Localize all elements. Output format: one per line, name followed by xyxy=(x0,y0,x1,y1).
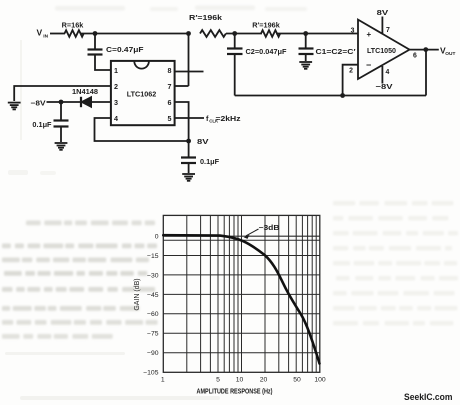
junction output node xyxy=(423,47,428,52)
node fCLK label xyxy=(206,114,241,124)
pin number 3 xyxy=(114,98,118,107)
svg-text:OUT: OUT xyxy=(445,51,455,57)
graph x-axis label 5 xyxy=(216,377,220,384)
svg-text:−105: −105 xyxy=(143,370,159,377)
node VOUT label xyxy=(440,46,455,58)
junction node E xyxy=(186,139,191,144)
junction -8V node xyxy=(59,100,64,105)
op-amp U1 LTC1050 xyxy=(358,20,410,79)
pin number 7 xyxy=(168,82,172,91)
graph y-axis label -105 xyxy=(143,370,159,377)
svg-text:−15: −15 xyxy=(147,253,159,260)
junction node D xyxy=(303,31,308,36)
capacitor C4 (0.1uF) xyxy=(54,102,69,142)
svg-text:50: 50 xyxy=(293,377,301,384)
graph y-axis label -90 xyxy=(147,350,159,357)
capacitor C value label C=0.47uF xyxy=(106,45,144,54)
resistor R'1 (196k) xyxy=(200,30,226,37)
capacitor C (0.47uF) xyxy=(88,34,103,55)
graph x-axis label 50 xyxy=(293,377,301,384)
graph x-axis label 100 xyxy=(314,377,326,384)
svg-text:−8V: −8V xyxy=(376,82,393,91)
svg-text:5: 5 xyxy=(168,114,172,123)
resistor R'1 value label R'=196k xyxy=(189,13,223,22)
svg-text:−3dB: −3dB xyxy=(259,225,280,232)
svg-text:V: V xyxy=(37,28,43,38)
svg-text:R′=196k: R′=196k xyxy=(189,13,223,22)
pin number 1 xyxy=(114,66,118,75)
svg-text:0.1μF: 0.1μF xyxy=(32,120,52,129)
capacitor C2 value label C2=0.047uF xyxy=(246,47,288,56)
svg-text:1: 1 xyxy=(161,377,165,384)
capacitor C5 (0.1uF) xyxy=(181,141,196,173)
graph y-axis label -15 xyxy=(147,253,159,260)
svg-text:LTC1062: LTC1062 xyxy=(127,90,156,99)
wire inverting input xyxy=(343,65,358,96)
ground at pin 2 xyxy=(8,103,21,110)
ground under C4 xyxy=(55,143,68,150)
resistor R'2 value label R'=196k xyxy=(252,21,280,30)
wire pin 2 to ground xyxy=(14,86,111,101)
svg-text:R′=196k: R′=196k xyxy=(252,21,280,30)
svg-text:10: 10 xyxy=(236,377,244,384)
capacitor C2 (0.047uF) xyxy=(227,34,243,55)
svg-text:4: 4 xyxy=(386,69,390,76)
wire C to pin 1 xyxy=(95,55,111,70)
svg-text:−8V: −8V xyxy=(31,99,46,108)
graph horizontal gridlines xyxy=(163,236,319,353)
pin number 8 xyxy=(168,66,172,75)
watermark SeekIC.com xyxy=(404,392,453,402)
graph y-axis label -75 xyxy=(147,331,159,338)
svg-text:−45: −45 xyxy=(147,292,159,299)
wire pin 7 stub xyxy=(175,85,189,87)
svg-text:5: 5 xyxy=(216,377,220,384)
wire -8V to diode xyxy=(47,101,82,103)
capacitor C4 value label 0.1uF xyxy=(32,120,52,129)
svg-text:0.1μF: 0.1μF xyxy=(200,157,220,166)
svg-text:C2=0.047μF: C2=0.047μF xyxy=(246,47,288,56)
pin number 2 xyxy=(114,82,118,91)
graph y-axis label 0 xyxy=(155,233,159,240)
wire feedback rail xyxy=(235,95,426,97)
svg-text:SeekIC.com: SeekIC.com xyxy=(404,392,453,402)
graph response curve xyxy=(163,235,319,363)
svg-text:8V: 8V xyxy=(377,8,389,17)
svg-text:C=0.47μF: C=0.47μF xyxy=(106,45,144,54)
graph vertical gridlines xyxy=(187,215,316,372)
svg-text:7: 7 xyxy=(168,82,172,91)
junction node B xyxy=(186,31,191,36)
diode D1 value label 1N4148 xyxy=(72,87,98,96)
svg-text:8: 8 xyxy=(168,66,172,75)
svg-text:LTC1050: LTC1050 xyxy=(367,48,396,55)
graph y-axis label -30 xyxy=(147,272,159,279)
graph y-axis title GAIN (dB) xyxy=(134,278,141,310)
resistor R'2 (196k) xyxy=(261,30,280,37)
svg-text:−75: −75 xyxy=(147,331,159,338)
wire VIN to R xyxy=(50,33,65,35)
svg-text:GAIN (dB): GAIN (dB) xyxy=(134,278,141,310)
svg-text:3: 3 xyxy=(351,28,355,35)
IC U2 LTC1062 xyxy=(111,61,175,125)
power 8V op-amp pin 7 xyxy=(377,8,389,34)
svg-text:+: + xyxy=(367,30,372,39)
power -8V label xyxy=(31,99,46,108)
svg-text:C1=C2=C′: C1=C2=C′ xyxy=(316,47,356,56)
svg-text:3: 3 xyxy=(114,98,118,107)
pin number 6 xyxy=(168,98,172,107)
ground under C5 xyxy=(182,174,195,181)
svg-text:−: − xyxy=(366,60,371,70)
capacitor C1 value label C1=C2=C' xyxy=(316,47,356,56)
junction node C xyxy=(232,31,237,36)
power 8V label xyxy=(197,137,209,146)
graph y-axis label -45 xyxy=(147,292,159,299)
svg-text:4: 4 xyxy=(114,114,118,123)
svg-text:−90: −90 xyxy=(147,350,159,357)
graph x-axis label 1 xyxy=(161,377,165,384)
svg-text:6: 6 xyxy=(168,98,172,107)
svg-text:8V: 8V xyxy=(197,137,209,146)
svg-text:1N4148: 1N4148 xyxy=(72,87,98,96)
power -8V op-amp pin 4 xyxy=(376,66,393,91)
resistor R value label R=16k xyxy=(62,21,85,30)
pin number 4 xyxy=(114,114,118,123)
capacitor C5 value label 0.1uF xyxy=(200,157,220,166)
svg-text:IN: IN xyxy=(43,33,48,39)
resistor R (16k) xyxy=(65,30,84,37)
svg-text:2: 2 xyxy=(114,82,118,91)
graph -3dB annotation xyxy=(244,225,280,239)
node VIN label xyxy=(37,28,49,40)
svg-text:1: 1 xyxy=(114,66,118,75)
diode D1 (1N4148) xyxy=(81,97,111,108)
svg-text:0: 0 xyxy=(155,233,159,240)
wire R to node B (top rail) xyxy=(80,33,189,35)
pin number 6 xyxy=(413,53,417,60)
wire R'2 to op-amp + input xyxy=(276,33,358,35)
ground under C1 xyxy=(299,62,312,69)
wire pin 6 down to node E xyxy=(175,102,189,141)
wire R'1 to node C xyxy=(226,33,262,35)
wire pin 5 clock stub xyxy=(175,117,204,119)
svg-text:2: 2 xyxy=(349,68,353,75)
wire pin 4 to node E xyxy=(95,118,189,141)
pin number 4 xyxy=(386,69,390,76)
graph frame xyxy=(163,215,319,372)
pin number 3 xyxy=(351,28,355,35)
svg-text:−30: −30 xyxy=(147,272,159,279)
graph y-axis label -60 xyxy=(147,311,159,318)
graph x-axis title xyxy=(197,389,273,396)
wire C2 bottom to feedback rail xyxy=(234,55,236,96)
svg-text:=2kHz: =2kHz xyxy=(216,114,241,123)
svg-text:100: 100 xyxy=(314,377,326,384)
svg-text:R=16k: R=16k xyxy=(62,21,85,30)
wire pin 8 stub xyxy=(175,71,204,73)
wire node B down to pin 7 xyxy=(188,34,190,87)
svg-text:AMPLITUDE RESPONSE (Hz): AMPLITUDE RESPONSE (Hz) xyxy=(197,389,273,396)
junction node A xyxy=(93,31,98,36)
svg-text:−60: −60 xyxy=(147,311,159,318)
graph x-axis label 10 xyxy=(236,377,244,384)
pin number 5 xyxy=(168,114,172,123)
svg-text:20: 20 xyxy=(260,377,268,384)
wire op-amp output xyxy=(410,49,439,51)
svg-text:7: 7 xyxy=(386,27,390,34)
pin number 2 xyxy=(349,68,353,75)
pin number 7 xyxy=(386,27,390,34)
svg-text:6: 6 xyxy=(413,53,417,60)
graph x-axis label 20 xyxy=(260,377,268,384)
wire feedback up to output xyxy=(425,50,427,96)
junction feedback node xyxy=(340,93,345,98)
capacitor C1 (=C2=C') xyxy=(299,34,314,62)
